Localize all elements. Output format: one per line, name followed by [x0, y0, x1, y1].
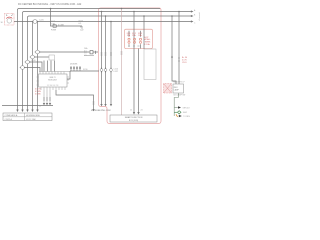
- svg-text:24: 24: [39, 106, 41, 108]
- svg-text:TO REV: TO REV: [183, 116, 190, 118]
- svg-text:22: 22: [130, 110, 132, 112]
- svg-text:C2022 A: C2022 A: [5, 118, 13, 121]
- svg-text:S402: S402: [183, 112, 187, 114]
- svg-text:SMART JUNCTION: SMART JUNCTION: [125, 116, 143, 119]
- svg-text:GRN 0.8: GRN 0.8: [183, 107, 190, 109]
- svg-text:LAMP: LAMP: [174, 89, 180, 92]
- svg-text:C22: C22: [80, 30, 83, 32]
- svg-text:DIODES: DIODES: [70, 64, 78, 66]
- svg-text:C101: C101: [182, 62, 187, 64]
- svg-text:BOX (SJB): BOX (SJB): [129, 120, 139, 122]
- svg-text:CONN FACE A: CONN FACE A: [5, 114, 18, 117]
- svg-text:MODULE: MODULE: [48, 80, 57, 82]
- svg-text:6 WY: 6 WY: [114, 71, 119, 73]
- svg-text:S230: S230: [83, 69, 87, 71]
- svg-text:FUSE: FUSE: [51, 30, 57, 32]
- svg-text:B/U LAMP SW: B/U LAMP SW: [174, 94, 186, 97]
- svg-text:PARK/REV LP: PARK/REV LP: [173, 80, 185, 83]
- svg-text:HOUSING SIDE: HOUSING SIDE: [26, 115, 41, 117]
- svg-text:(D2022): (D2022): [198, 13, 200, 21]
- svg-text:S-B FUSE PNL C202: S-B FUSE PNL C202: [91, 110, 112, 112]
- svg-text:0.5 BR: 0.5 BR: [58, 25, 64, 27]
- svg-text:0.5: 0.5: [79, 23, 82, 25]
- svg-text:0.5 BK: 0.5 BK: [35, 94, 41, 96]
- svg-text:DC CENTER B/U IND DIAG - 1997: DC CENTER B/U IND DIAG - 1997 CS COUPE 4…: [18, 3, 82, 6]
- svg-text:24: 24: [141, 110, 143, 112]
- svg-text:GY 12 CAV: GY 12 CAV: [26, 118, 36, 121]
- svg-text:1 2 3 4 5 6 7 8: 1 2 3 4 5 6 7 8: [47, 85, 59, 87]
- svg-text:F 10A: F 10A: [145, 43, 151, 46]
- svg-text:C240: C240: [31, 60, 36, 62]
